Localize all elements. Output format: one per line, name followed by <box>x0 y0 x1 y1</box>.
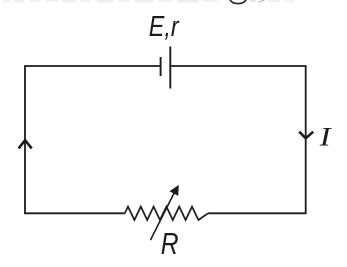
svg-text:R: R <box>161 227 179 261</box>
svg-text:E,r: E,r <box>149 11 180 43</box>
svg-text:I: I <box>319 122 333 151</box>
